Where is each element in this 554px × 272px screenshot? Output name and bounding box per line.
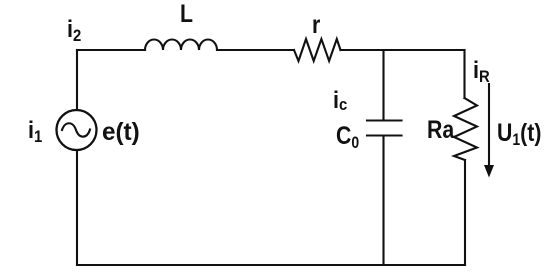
resistor Ra xyxy=(454,98,477,160)
voltage source e(t) circle xyxy=(57,110,97,150)
arrow U1(t) direction xyxy=(484,84,494,178)
label resistor r xyxy=(312,13,320,38)
label voltage U1(t) xyxy=(497,121,541,146)
wire bottom horizontal xyxy=(77,264,465,266)
label current ic xyxy=(333,89,347,113)
capacitor C0 bottom plate xyxy=(367,134,402,136)
wire right branch upper (corner to Ra) xyxy=(463,50,465,98)
wire left branch lower (source to bottom) xyxy=(76,150,78,265)
label source e(t) xyxy=(102,120,140,145)
wire resistor r to top-right corner xyxy=(341,49,465,51)
wire top-left horizontal (node i2 to inductor) xyxy=(77,49,145,51)
wire left branch upper (node i2 down to source) xyxy=(76,50,78,110)
wire middle branch upper (node to capacitor) xyxy=(382,50,384,121)
label resistor Ra xyxy=(427,118,454,143)
label current i2 xyxy=(67,18,81,42)
wire right branch lower (Ra to bottom) xyxy=(464,160,466,265)
inductor L xyxy=(145,40,217,51)
wire middle branch lower (capacitor to bottom) xyxy=(382,136,384,266)
label current iR xyxy=(473,59,490,83)
label inductor L xyxy=(180,2,193,27)
resistor r xyxy=(294,39,341,61)
voltage source sine symbol xyxy=(62,123,90,136)
label capacitor C0 xyxy=(336,124,359,149)
label current i1 xyxy=(28,119,42,143)
capacitor C0 top plate xyxy=(367,119,402,121)
wire inductor to resistor r xyxy=(217,49,294,51)
